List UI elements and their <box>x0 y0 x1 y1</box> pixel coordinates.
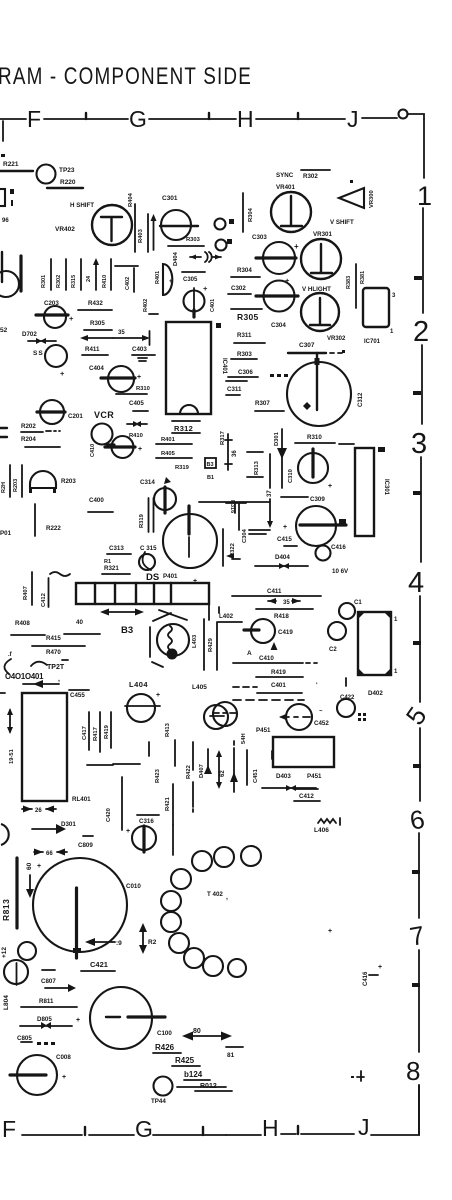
tick <box>413 491 421 495</box>
svg-text:R401: R401 <box>155 271 161 284</box>
svg-text:V SHIFT: V SHIFT <box>330 219 354 226</box>
svg-text:C419: C419 <box>278 629 293 636</box>
svg-text:+: + <box>60 369 65 378</box>
wire with arrow <box>92 941 115 943</box>
wire arc <box>31 662 47 666</box>
wire corner segment <box>408 114 424 119</box>
svg-text:H SHIFT: H SHIFT <box>70 202 94 209</box>
svg-text:4: 4 <box>408 567 424 599</box>
wire bottom border segment <box>226 1134 261 1136</box>
pot P451 <box>273 737 334 767</box>
wire <box>50 259 52 290</box>
node 81 <box>226 1046 243 1048</box>
svg-text:R313: R313 <box>254 460 260 475</box>
svg-text:R419: R419 <box>104 724 110 739</box>
coil L406 <box>318 819 336 823</box>
dot <box>10 189 14 194</box>
capacitor C312 <box>287 362 351 426</box>
svg-text:C310: C310 <box>288 469 294 483</box>
svg-text:L405: L405 <box>192 684 207 691</box>
svg-text:VR402: VR402 <box>55 226 75 233</box>
tick <box>414 276 422 280</box>
svg-text:40: 40 <box>76 619 83 626</box>
wire arc <box>4 659 11 674</box>
relay RL401 <box>22 693 67 801</box>
svg-text:R222: R222 <box>46 525 61 532</box>
svg-text:36: 36 <box>232 450 238 457</box>
capacitor C2 <box>328 622 346 640</box>
title DIAGRAM - COMPONENT SIDE <box>0 63 252 90</box>
wire <box>256 608 313 610</box>
svg-text:+: + <box>138 446 142 453</box>
wire <box>355 264 357 308</box>
top border with grid letters <box>0 106 424 157</box>
wire right border <box>418 1085 420 1135</box>
svg-text:R404: R404 <box>128 192 134 207</box>
via hole small <box>139 554 155 570</box>
wire <box>19 256 22 291</box>
tick <box>413 641 421 645</box>
via hole <box>216 240 227 251</box>
capacitor C201 <box>40 400 64 424</box>
IC401 <box>166 322 211 414</box>
diode D405 <box>127 423 147 425</box>
wire right border <box>422 208 424 313</box>
svg-text:R421: R421 <box>165 796 171 811</box>
capacitor C310 <box>298 453 328 483</box>
svg-text:52: 52 <box>0 327 8 334</box>
svg-text:D301: D301 <box>274 431 280 446</box>
tick <box>84 1127 86 1135</box>
svg-text:35: 35 <box>118 330 125 336</box>
wire <box>228 376 258 378</box>
svg-text:VR301: VR301 <box>313 231 332 238</box>
svg-text:C405: C405 <box>129 400 144 407</box>
svg-text:62: 62 <box>220 770 226 777</box>
capacitor C010 <box>33 858 127 952</box>
svg-text:P401: P401 <box>163 573 178 580</box>
svg-text:R302: R302 <box>56 275 62 288</box>
svg-text:R221: R221 <box>3 161 19 168</box>
svg-text:R304: R304 <box>248 207 254 222</box>
tick <box>413 391 421 395</box>
svg-text:H: H <box>237 106 254 132</box>
capacitor C303 <box>263 242 295 274</box>
svg-text:+12: +12 <box>1 947 8 958</box>
svg-text:D805: D805 <box>37 1016 52 1023</box>
svg-text:10 6V: 10 6V <box>332 568 349 575</box>
svg-text:R415: R415 <box>46 635 61 642</box>
svg-text:J: J <box>358 1114 370 1140</box>
edge marks <box>0 428 7 437</box>
svg-text:IC701: IC701 <box>364 339 381 345</box>
tick left edge <box>2 121 4 141</box>
svg-text:R301: R301 <box>41 275 47 288</box>
wire with arrow <box>269 499 271 521</box>
svg-text:SS: SS <box>33 350 44 357</box>
capacitor C309 <box>296 506 336 546</box>
svg-text:R426: R426 <box>155 1043 175 1052</box>
svg-text:J: J <box>347 106 359 132</box>
capacitor C419 <box>251 619 275 643</box>
svg-text:8: 8 <box>406 1056 420 1086</box>
wires vertical <box>149 740 208 771</box>
svg-text:C312: C312 <box>358 392 364 407</box>
svg-text:R304: R304 <box>237 267 252 274</box>
svg-text:R813: R813 <box>1 899 11 921</box>
svg-text:+: + <box>156 692 160 699</box>
svg-text:VR302: VR302 <box>327 336 346 342</box>
wire <box>228 293 251 295</box>
svg-text:R310: R310 <box>307 434 322 441</box>
svg-text:R307: R307 <box>255 400 270 407</box>
alignment hole top right <box>399 110 408 119</box>
capacitor C452 <box>286 704 312 730</box>
resistor R305 <box>231 308 262 310</box>
svg-text:L804: L804 <box>3 995 10 1010</box>
svg-text:P451: P451 <box>307 773 322 780</box>
wire top border segment <box>149 118 236 120</box>
wire <box>269 454 271 488</box>
wire <box>226 394 240 396</box>
coil L403 shield <box>150 613 171 667</box>
svg-text::9: :9 <box>116 940 122 947</box>
svg-text:L403: L403 <box>192 634 198 648</box>
wire <box>80 259 82 290</box>
svg-text:C313: C313 <box>109 545 124 552</box>
svg-text:G: G <box>129 106 147 132</box>
wire <box>281 496 308 498</box>
capacitor C301 <box>161 210 191 240</box>
svg-text:60: 60 <box>26 862 33 870</box>
svg-text:R417: R417 <box>93 727 99 741</box>
wire bottom border segment <box>22 1134 82 1136</box>
wire with arrow <box>23 683 59 685</box>
spark gap symbol <box>190 256 221 258</box>
wire left edge <box>1 252 3 282</box>
capacitor C810 edge arc <box>1 824 9 845</box>
wire with arrow <box>86 337 113 339</box>
capacitor C410 <box>92 424 113 445</box>
svg-text:DS: DS <box>146 572 159 583</box>
capacitor C005 <box>90 987 152 1049</box>
svg-text:C305: C305 <box>183 277 198 283</box>
wire <box>231 276 260 278</box>
svg-text:R410: R410 <box>102 275 108 288</box>
svg-text:C 315: C 315 <box>140 545 157 552</box>
pin B <box>53 489 56 493</box>
svg-text:C411: C411 <box>267 588 282 595</box>
wire <box>110 259 112 290</box>
svg-text:+: + <box>126 828 130 835</box>
capacitor C409 <box>112 436 134 458</box>
wire <box>0 170 33 172</box>
svg-text:B3: B3 <box>207 462 214 468</box>
svg-text:26: 26 <box>35 808 42 814</box>
svg-text:R418: R418 <box>274 613 289 620</box>
svg-text:R407: R407 <box>23 586 29 600</box>
svg-text:C410: C410 <box>90 444 96 457</box>
svg-text:R425: R425 <box>175 1056 195 1065</box>
svg-text:R811: R811 <box>39 998 54 1005</box>
wire top border segment <box>44 118 128 120</box>
svg-text:C809: C809 <box>78 842 93 849</box>
svg-text:C807: C807 <box>41 978 56 985</box>
pad <box>227 239 232 244</box>
svg-text:R1: R1 <box>104 559 111 565</box>
wire <box>65 259 67 290</box>
svg-text:C412: C412 <box>41 593 47 607</box>
dot <box>350 180 353 183</box>
svg-text:G: G <box>135 1116 153 1142</box>
capacitor C202 <box>45 345 67 367</box>
dots <box>270 374 274 377</box>
svg-text:R310: R310 <box>136 386 150 392</box>
svg-text:35: 35 <box>283 600 290 606</box>
arrow <box>204 765 212 774</box>
dash-dot <box>46 430 60 432</box>
capacitor C806 <box>4 960 28 984</box>
svg-text:C201: C201 <box>68 413 83 420</box>
via hole <box>18 942 36 960</box>
wire below <box>208 604 210 620</box>
svg-text:C307: C307 <box>299 342 315 349</box>
svg-text:D407: D407 <box>199 764 205 778</box>
svg-text:R422: R422 <box>186 765 192 779</box>
svg-text:+: + <box>294 242 299 251</box>
svg-text:R203: R203 <box>61 478 76 485</box>
svg-text:24: 24 <box>86 275 92 282</box>
wire right border <box>419 728 421 801</box>
svg-text:+: + <box>37 863 41 870</box>
svg-text:+: + <box>69 314 74 323</box>
svg-text:B1: B1 <box>207 475 214 481</box>
svg-text:R419: R419 <box>271 669 286 676</box>
svg-text:R405: R405 <box>161 451 176 457</box>
svg-text:R319: R319 <box>139 513 145 528</box>
svg-text:+: + <box>76 1017 80 1024</box>
dimension arrow <box>104 611 140 613</box>
pin C <box>29 489 32 493</box>
svg-text:+: + <box>328 928 332 935</box>
svg-text:,: , <box>226 894 228 901</box>
svg-text:C416: C416 <box>331 544 346 551</box>
svg-text:C415: C415 <box>277 536 292 543</box>
capacitor C807 <box>42 969 55 971</box>
svg-text:+: + <box>378 964 382 971</box>
pot VR402 <box>92 205 132 245</box>
svg-text:D403: D403 <box>276 773 291 780</box>
wire right border <box>419 596 421 702</box>
svg-text:+: + <box>283 524 287 531</box>
display bar P401 segmented <box>76 583 209 604</box>
tick mark <box>297 113 299 119</box>
svg-text:C455: C455 <box>70 692 85 699</box>
resistor R415 <box>11 634 100 635</box>
svg-text:C304: C304 <box>271 322 286 329</box>
svg-text:L402: L402 <box>219 613 234 620</box>
wire with arrow <box>29 875 31 890</box>
svg-text:19-51: 19-51 <box>9 748 15 764</box>
svg-text:R401: R401 <box>161 437 176 443</box>
svg-text:C010: C010 <box>126 883 141 890</box>
svg-text:R413: R413 <box>165 722 171 737</box>
capacitor C700 edge <box>0 271 19 297</box>
svg-text:C404: C404 <box>89 365 104 372</box>
svg-text:R204: R204 <box>21 436 36 443</box>
svg-text:C410: C410 <box>259 655 274 662</box>
capacitor C304 <box>264 281 295 312</box>
diode D403 <box>262 787 316 789</box>
svg-text:R432: R432 <box>88 300 103 307</box>
svg-text:V HLIGHT: V HLIGHT <box>302 286 331 293</box>
svg-text:TP44: TP44 <box>151 1098 166 1105</box>
svg-text:L404: L404 <box>129 680 148 689</box>
capacitor C317 <box>163 514 217 568</box>
svg-text:3: 3 <box>411 428 427 460</box>
diode D804 <box>45 987 68 989</box>
svg-text:RAM - COMPONENT SIDE: RAM - COMPONENT SIDE <box>0 63 252 90</box>
svg-text:R303: R303 <box>237 351 252 358</box>
svg-text:37: 37 <box>267 490 273 497</box>
svg-text:D301: D301 <box>61 821 76 828</box>
wire top border segment <box>256 118 345 120</box>
svg-text:~: ~ <box>319 709 323 715</box>
transistor R203 dome <box>30 471 56 488</box>
svg-text:R317: R317 <box>220 431 226 445</box>
coil L403 <box>157 624 189 656</box>
svg-text:C421: C421 <box>90 960 108 969</box>
svg-text:R383: R383 <box>346 276 352 289</box>
svg-text:C306: C306 <box>238 369 253 376</box>
wire <box>134 204 136 252</box>
svg-text:R305: R305 <box>237 312 259 322</box>
svg-text:R402: R402 <box>143 299 149 312</box>
svg-text:IC301: IC301 <box>383 479 389 496</box>
svg-text:VR401: VR401 <box>276 184 295 191</box>
svg-text:C1: C1 <box>354 600 362 606</box>
capacitor C404 <box>108 366 134 392</box>
svg-text:81: 81 <box>227 1052 235 1059</box>
svg-text:R410: R410 <box>129 433 143 439</box>
svg-text:O4O1O401: O4O1O401 <box>5 672 44 681</box>
svg-text:B3: B3 <box>121 625 133 636</box>
capacitor C401 <box>184 291 205 312</box>
wire squiggle <box>50 572 70 576</box>
wire right border <box>421 345 423 424</box>
dimension 19-51 <box>9 710 11 732</box>
svg-text:R220: R220 <box>60 179 76 186</box>
svg-text:T 402: T 402 <box>207 891 223 898</box>
svg-text:C311: C311 <box>227 386 242 393</box>
svg-text:2: 2 <box>413 316 429 348</box>
svg-text:R312: R312 <box>174 424 193 433</box>
wire bottom border segment <box>371 1085 419 1135</box>
svg-text:L406: L406 <box>314 827 329 834</box>
wire <box>47 187 83 189</box>
bottom border with grid letters <box>2 1085 419 1142</box>
tick <box>412 870 420 874</box>
svg-text:C314: C314 <box>140 479 155 486</box>
svg-text:C008: C008 <box>56 1054 71 1061</box>
svg-text:C302: C302 <box>231 285 246 292</box>
wire overline <box>301 169 330 171</box>
svg-text:R408: R408 <box>15 620 30 627</box>
svg-text:RL401: RL401 <box>72 796 91 803</box>
svg-text:C316: C316 <box>139 818 154 825</box>
svg-text:P451: P451 <box>256 727 271 734</box>
wire bottom border segment <box>281 1133 296 1135</box>
wire overline <box>182 271 205 273</box>
wire top border segment <box>0 118 26 120</box>
svg-text:C2: C2 <box>329 647 337 653</box>
svg-text:F: F <box>2 1116 16 1142</box>
wire with arrow <box>233 748 235 792</box>
svg-text:C100: C100 <box>157 1030 172 1037</box>
svg-text:C403: C403 <box>132 346 147 353</box>
mark <box>357 1071 364 1081</box>
dimension 62 <box>218 754 220 785</box>
svg-text:SYNC: SYNC <box>276 172 294 179</box>
svg-text:C303: C303 <box>252 234 267 241</box>
wire <box>242 193 244 232</box>
wire bottom border segment <box>301 1133 354 1135</box>
diode D401 dome <box>163 264 172 295</box>
svg-text:54H: 54H <box>241 733 247 744</box>
svg-text:VCR: VCR <box>94 410 114 420</box>
wire with arrow <box>95 264 97 290</box>
svg-text:IC401: IC401 <box>221 358 227 375</box>
pot VR401 <box>271 192 311 232</box>
svg-text:C805: C805 <box>17 1035 32 1042</box>
svg-text:C400: C400 <box>89 497 104 504</box>
svg-text:R203: R203 <box>13 479 19 492</box>
svg-text:TP2T: TP2T <box>47 664 65 671</box>
wire <box>168 245 204 247</box>
svg-text:R470: R470 <box>46 649 61 656</box>
pot VR302 <box>301 293 339 331</box>
wire <box>147 214 149 252</box>
svg-text:D402: D402 <box>368 690 383 697</box>
svg-text:R311: R311 <box>237 332 252 339</box>
bridge D402 <box>358 612 391 675</box>
wire <box>234 342 265 344</box>
tick mark <box>85 113 87 119</box>
test point TP44 <box>154 1077 173 1096</box>
svg-text:R2H: R2H <box>1 482 7 493</box>
IC301 <box>355 448 374 536</box>
tick <box>297 1126 299 1134</box>
svg-text:C401: C401 <box>271 682 286 689</box>
svg-text:R2: R2 <box>148 939 157 946</box>
wire <box>249 530 270 534</box>
wire right border <box>420 457 422 562</box>
wire <box>149 313 158 315</box>
svg-text:C401: C401 <box>210 299 216 312</box>
via hole <box>215 219 226 230</box>
capacitor C203 <box>44 306 66 328</box>
svg-text:C451: C451 <box>253 768 259 783</box>
pad <box>229 219 234 224</box>
dimension 35 <box>268 600 300 602</box>
svg-text:R305: R305 <box>90 320 105 327</box>
svg-text:C452: C452 <box>314 720 329 727</box>
dimension 66 <box>34 851 67 853</box>
wire right border <box>423 119 425 178</box>
svg-text:D404: D404 <box>173 251 179 266</box>
svg-text:+: + <box>169 279 173 285</box>
tick mark <box>208 113 210 119</box>
